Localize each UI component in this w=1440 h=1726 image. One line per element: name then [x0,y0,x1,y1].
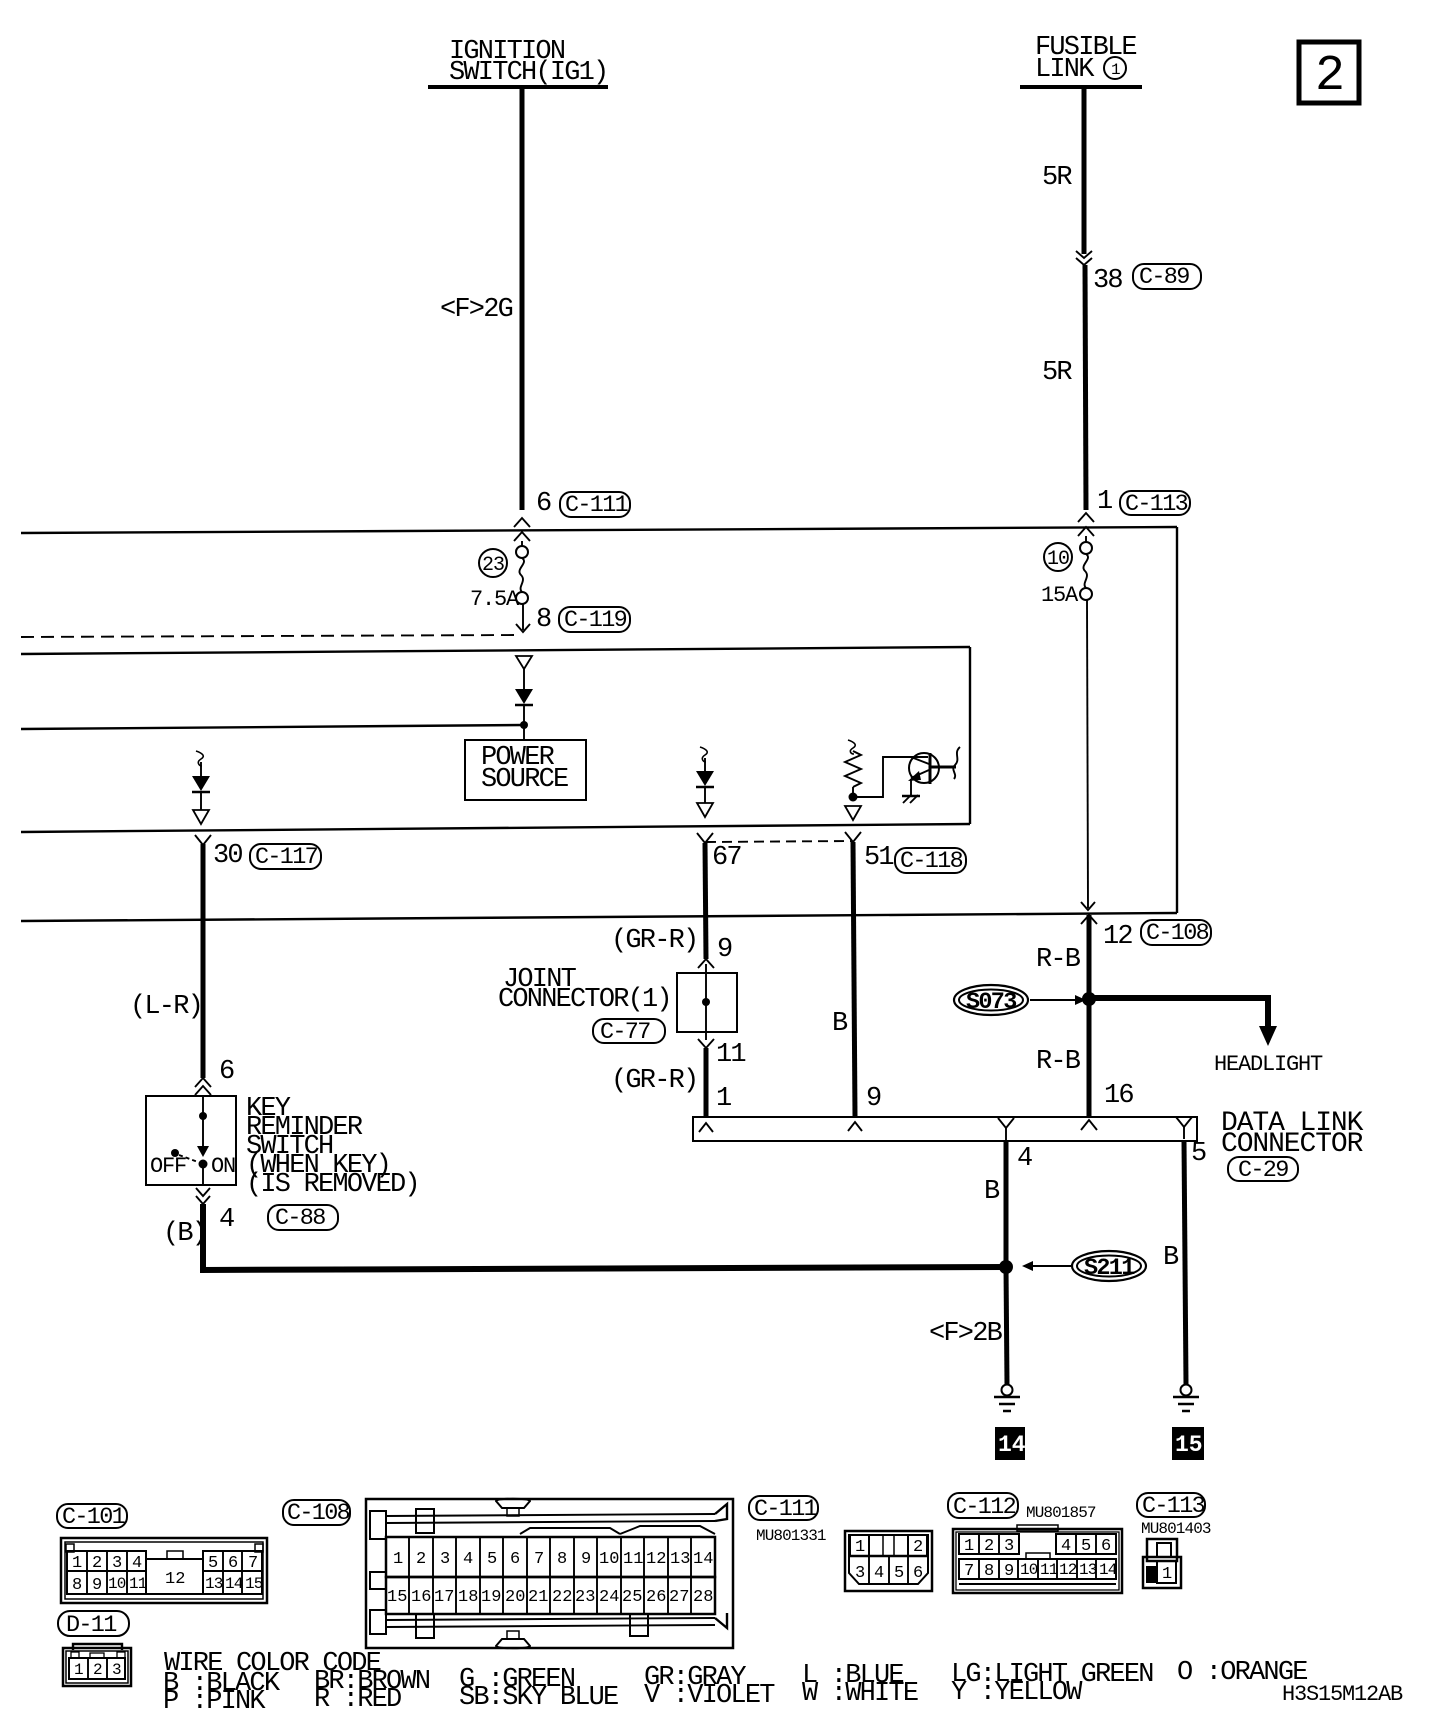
fuse 10 number circle [1044,543,1072,571]
svg-text:19: 19 [481,1588,501,1607]
svg-text:8: 8 [536,605,551,635]
svg-text:C-101: C-101 [62,1504,125,1531]
svg-text:11: 11 [716,1040,745,1070]
svg-text:12: 12 [646,1550,666,1569]
svg-text:16: 16 [1104,1081,1133,1111]
ground tag 15 [1172,1427,1204,1460]
wire B DLC pin 5 to ground 15 [1184,1141,1186,1384]
wire fusible link 5R lower [1085,265,1086,510]
svg-text:3: 3 [440,1550,450,1569]
svg-text:8: 8 [984,1562,994,1581]
connector C-113 drawing [1143,1539,1181,1588]
svg-text:4: 4 [463,1550,473,1569]
svg-text:Y :YELLOW: Y :YELLOW [951,1678,1083,1708]
svg-text:4: 4 [1017,1144,1032,1174]
svg-text:25: 25 [622,1588,642,1607]
svg-text:6: 6 [219,1057,234,1087]
svg-text:20: 20 [505,1588,525,1607]
svg-text:67: 67 [712,843,741,873]
connector C-113 pill [1137,1493,1211,1538]
connector C-101 pill [57,1504,127,1531]
svg-text:51: 51 [864,843,893,873]
svg-text:10: 10 [1020,1561,1038,1579]
svg-text:14: 14 [998,1432,1026,1458]
bus line D [21,725,524,729]
fuse 23 (7.5A) [516,541,528,604]
svg-text:7: 7 [964,1562,974,1581]
svg-text:HEADLIGHT: HEADLIGHT [1214,1052,1323,1077]
svg-text:MU801857: MU801857 [1026,1504,1096,1522]
svg-text:1: 1 [72,1554,82,1573]
svg-text:5: 5 [208,1554,218,1573]
svg-text:C-108: C-108 [287,1500,350,1527]
wire B DLC pin 4 to ground junction [1004,1141,1009,1267]
ground 14 [994,1385,1020,1412]
diode D1 (power source feed) [515,689,533,724]
junction node resistor/base [849,793,858,802]
connector chevron 9 joint connector [698,959,714,968]
svg-text:H3S15M12AB: H3S15M12AB [1282,1682,1403,1707]
key reminder switch label [246,1094,419,1200]
svg-text:1: 1 [393,1550,403,1569]
node 51 C-118 label [864,843,966,875]
diode D2 (pin 30 branch) [192,762,210,824]
svg-text:7: 7 [248,1554,258,1573]
svg-text:2: 2 [913,1538,923,1557]
node 30 C-117 label [213,841,321,871]
svg-text:26: 26 [646,1588,666,1607]
svg-text:C-108: C-108 [1146,920,1209,947]
wire (L-R) pin30 to key reminder switch [201,844,206,1078]
svg-text:5: 5 [1081,1537,1091,1556]
svg-text:18: 18 [458,1588,478,1607]
svg-text:SOURCE: SOURCE [481,765,568,795]
ignition switch (IG1) header [428,37,608,88]
connector chevron 51 [845,832,861,842]
svg-text:S073: S073 [966,989,1016,1016]
svg-text:MU801403: MU801403 [1141,1520,1211,1538]
svg-text:6: 6 [510,1550,520,1569]
DLC chevron pin 5 [1176,1117,1192,1139]
svg-text:8: 8 [72,1576,82,1595]
svg-text:CONNECTOR: CONNECTOR [1221,1129,1364,1160]
svg-text:6: 6 [1101,1537,1111,1556]
svg-text:1: 1 [1097,487,1112,517]
connector C-101 drawing [61,1538,267,1603]
svg-text:22: 22 [552,1588,572,1607]
svg-text:2: 2 [1315,48,1345,105]
DLC chevron pin 1 [699,1123,713,1132]
diode D2 branch hook [196,751,203,766]
node 8 C-119 label [536,605,630,635]
resistor R1 [845,751,861,794]
arrow S073 to junction [1030,995,1086,1005]
svg-text:1: 1 [716,1084,731,1114]
svg-text:B: B [1163,1243,1179,1273]
svg-text:7: 7 [534,1550,544,1569]
node 1 C-113 label [1097,487,1190,518]
connector chevron 12 C-108 below bus F [1081,915,1097,924]
wire fuse 23 to dashed bus with arrow [516,604,530,632]
svg-text:3: 3 [1004,1537,1014,1556]
svg-text:5: 5 [894,1564,904,1583]
bus line E (inner box bottom edge) [21,824,970,832]
wire color code legend [163,1649,1307,1717]
fusible link 1 header [1020,33,1142,87]
wire R-B junction to DLC pin 16 [1087,999,1092,1117]
svg-text:10: 10 [599,1550,619,1569]
connector chevrons pin 6 key switch [195,1078,211,1095]
svg-text:(B): (B) [163,1219,206,1249]
svg-text:1: 1 [74,1661,84,1679]
svg-text:15: 15 [245,1575,263,1593]
svg-text:(IS REMOVED): (IS REMOVED) [246,1170,419,1200]
fuse 10 (15A) [1080,536,1092,600]
splice S073 [954,985,1028,1016]
wire fusible link 5R upper [1082,89,1087,254]
wire (GR-R) joint connector to DLC pin 1 [704,1048,709,1117]
wire R-B 12 to S073 junction [1087,915,1092,998]
wire junction to power source box [523,725,525,740]
connector C-112 pill [948,1493,1096,1522]
svg-text:4: 4 [1061,1537,1071,1556]
svg-text:11: 11 [129,1575,147,1593]
svg-text:12: 12 [165,1570,185,1589]
node 12 C-108 label [1103,920,1211,952]
dashed bus line B [21,635,517,637]
svg-text:<F>2B: <F>2B [929,1319,1003,1349]
svg-text:6: 6 [913,1564,923,1583]
svg-text:1: 1 [1162,1565,1172,1584]
open triangle below resistor [845,806,861,820]
inner box right edge [969,647,971,824]
DLC chevron pin 9 [848,1122,862,1131]
ground tag 14 [995,1427,1026,1460]
ECU right edge [1176,527,1178,913]
svg-text:24: 24 [599,1588,619,1607]
svg-text:P :PINK: P :PINK [163,1687,266,1717]
svg-text:16: 16 [411,1588,431,1607]
DLC chevron pin 16 [1081,1120,1097,1130]
svg-text:<F>2G: <F>2G [440,295,513,325]
svg-text:14: 14 [1099,1561,1117,1579]
svg-text:2: 2 [92,1554,102,1573]
connector C-111 drawing [845,1531,932,1591]
svg-text:7.5A: 7.5A [470,587,520,612]
bus line F (ECU bottom edge) [21,913,1177,921]
splice S211 [1072,1251,1146,1282]
svg-text:C-29: C-29 [1238,1157,1288,1184]
svg-text:4: 4 [219,1205,234,1235]
svg-text:12: 12 [1103,922,1132,952]
svg-text:4: 4 [874,1564,884,1583]
svg-text:4: 4 [132,1554,142,1573]
svg-text:23: 23 [482,554,504,577]
svg-text:28: 28 [693,1588,713,1607]
bus line A (ECU top edge) [21,527,1177,533]
svg-text:6: 6 [228,1554,238,1573]
svg-text:C-119: C-119 [564,607,627,634]
dashed link 67 to 51 [706,841,852,842]
svg-text:9: 9 [1004,1562,1014,1581]
svg-text:1: 1 [964,1537,974,1556]
key reminder switch box C-88 [146,1096,236,1185]
svg-text:LINK: LINK [1035,55,1095,85]
transistor collector hook [953,747,960,779]
wire B 51 to DLC pin 9 [853,842,855,1116]
joint connector (1) box C-77 [677,964,737,1040]
svg-text:14: 14 [225,1575,243,1593]
svg-text:8: 8 [557,1550,567,1569]
svg-text:9: 9 [717,935,732,965]
svg-text:C-88: C-88 [275,1205,325,1232]
svg-text:5: 5 [1191,1139,1206,1169]
svg-text:C-112: C-112 [953,1494,1016,1521]
svg-text:S211: S211 [1084,1255,1135,1282]
page number box 2 [1299,42,1359,105]
svg-text:5R: 5R [1042,163,1072,193]
node 6 C-111 label [536,489,630,519]
svg-text:ON: ON [211,1154,235,1179]
connector D-11 pill [58,1611,129,1639]
svg-text:SB:SKY BLUE: SB:SKY BLUE [459,1683,618,1713]
DLC chevron pin 4 [998,1118,1014,1140]
svg-text:11: 11 [623,1550,643,1569]
svg-text:C-113: C-113 [1142,1493,1205,1520]
svg-text:(GR-R): (GR-R) [611,926,697,956]
ground wire from key switch to S211 junction [203,1204,1006,1270]
svg-text:15A: 15A [1041,583,1079,608]
svg-text:(GR-R): (GR-R) [611,1066,697,1096]
svg-text:B: B [832,1009,848,1039]
svg-text:C-77: C-77 [600,1019,650,1046]
wire (GR-R) 67 to joint connector [705,843,706,959]
connector chevron 67 [697,833,713,843]
svg-text:10: 10 [108,1575,126,1593]
diode D3 (pin 67 branch) [696,758,714,817]
data link connector box C-29 [693,1117,1197,1141]
fuse 23 number circle [479,549,507,577]
headlight feed branch [1089,998,1277,1046]
diode D3 branch hook [700,747,707,762]
power source box [465,740,586,800]
wire resistor to transistor base [853,757,928,797]
svg-text:SWITCH(IG1): SWITCH(IG1) [449,58,607,88]
bus line C (inner box top edge) [21,647,970,654]
resistor hook [848,740,855,754]
svg-text:D-11: D-11 [66,1612,116,1639]
svg-text:CONNECTOR(1): CONNECTOR(1) [498,985,671,1015]
svg-text:R-B: R-B [1036,945,1081,975]
transistor emitter ground [902,795,920,803]
svg-text:C-111: C-111 [754,1496,817,1523]
svg-text:3: 3 [112,1554,122,1573]
svg-text:14: 14 [693,1550,713,1569]
svg-text:MU801331: MU801331 [756,1527,826,1545]
connector chevron 11 joint connector [698,1039,714,1048]
svg-text:(L-R): (L-R) [130,992,202,1022]
transistor Q1 [908,753,956,795]
connector C-108 pill [283,1500,350,1527]
connector D-11 drawing [63,1644,131,1686]
connector chevron 38 C-89 [1076,251,1092,265]
svg-text:9: 9 [581,1550,591,1569]
svg-text:23: 23 [575,1588,595,1607]
svg-text:OFF: OFF [150,1154,186,1179]
svg-text:R-B: R-B [1036,1047,1081,1077]
svg-text:13: 13 [205,1575,223,1593]
connector C-111 pill [749,1496,826,1545]
svg-text:C-89: C-89 [1139,264,1189,291]
diode D1 input triangle (open) [516,656,532,690]
data link connector label [1221,1108,1364,1184]
svg-text:21: 21 [528,1588,548,1607]
svg-text:13: 13 [1079,1561,1097,1579]
connector chevron 30 C-117 [195,835,211,845]
junction node at power source [520,721,528,729]
svg-text:R :RED: R :RED [314,1685,401,1715]
svg-text:15: 15 [1175,1432,1203,1458]
svg-text:10: 10 [1047,548,1069,571]
connector C-88 pill [268,1205,338,1232]
svg-text:C-117: C-117 [255,844,318,871]
connector chevrons at C-113 pin 1 crossing [1078,513,1094,536]
wire junction to ground 14 [1006,1267,1007,1384]
svg-text:15: 15 [387,1588,407,1607]
svg-text:C-111: C-111 [565,492,628,519]
ground 15 [1173,1385,1199,1412]
svg-text:B: B [984,1177,1000,1207]
svg-text:5: 5 [487,1550,497,1569]
svg-text:5R: 5R [1042,358,1072,388]
svg-text:13: 13 [670,1550,690,1569]
svg-text:30: 30 [213,841,242,871]
svg-text:12: 12 [1059,1561,1077,1579]
svg-text:1: 1 [855,1538,865,1557]
wire ignition IG1 to C-111 pin 6 [520,89,525,510]
arrow S211 to junction [1022,1261,1071,1271]
connector chevrons pin 4 key switch [196,1188,210,1204]
junction node S073 [1082,992,1096,1006]
svg-text:2: 2 [93,1661,103,1679]
svg-text:C-118: C-118 [900,848,963,875]
svg-text:38: 38 [1093,266,1122,296]
svg-text:11: 11 [1040,1561,1058,1579]
svg-text:W :WHITE: W :WHITE [802,1679,918,1709]
svg-text:17: 17 [434,1588,454,1607]
connector chevrons at C-111 pin 6 crossing [514,518,530,541]
node 38 C-89 label [1093,264,1201,296]
svg-text:2: 2 [984,1537,994,1556]
svg-text:3: 3 [112,1661,122,1679]
svg-text:3: 3 [855,1564,865,1583]
svg-text:27: 27 [669,1588,689,1607]
svg-text:6: 6 [536,489,551,519]
svg-text:9: 9 [866,1084,881,1114]
svg-text:C-113: C-113 [1125,491,1188,518]
connector C-112 drawing [953,1525,1122,1593]
svg-text:V :VIOLET: V :VIOLET [644,1681,775,1711]
svg-text:1: 1 [1111,61,1121,79]
joint connector label [498,965,671,1046]
svg-text:2: 2 [416,1550,426,1569]
wire fuse 10 down to bus F [1081,600,1095,910]
svg-text:9: 9 [92,1576,102,1595]
connector C-108 drawing [366,1499,733,1649]
junction node S211 [999,1260,1013,1274]
